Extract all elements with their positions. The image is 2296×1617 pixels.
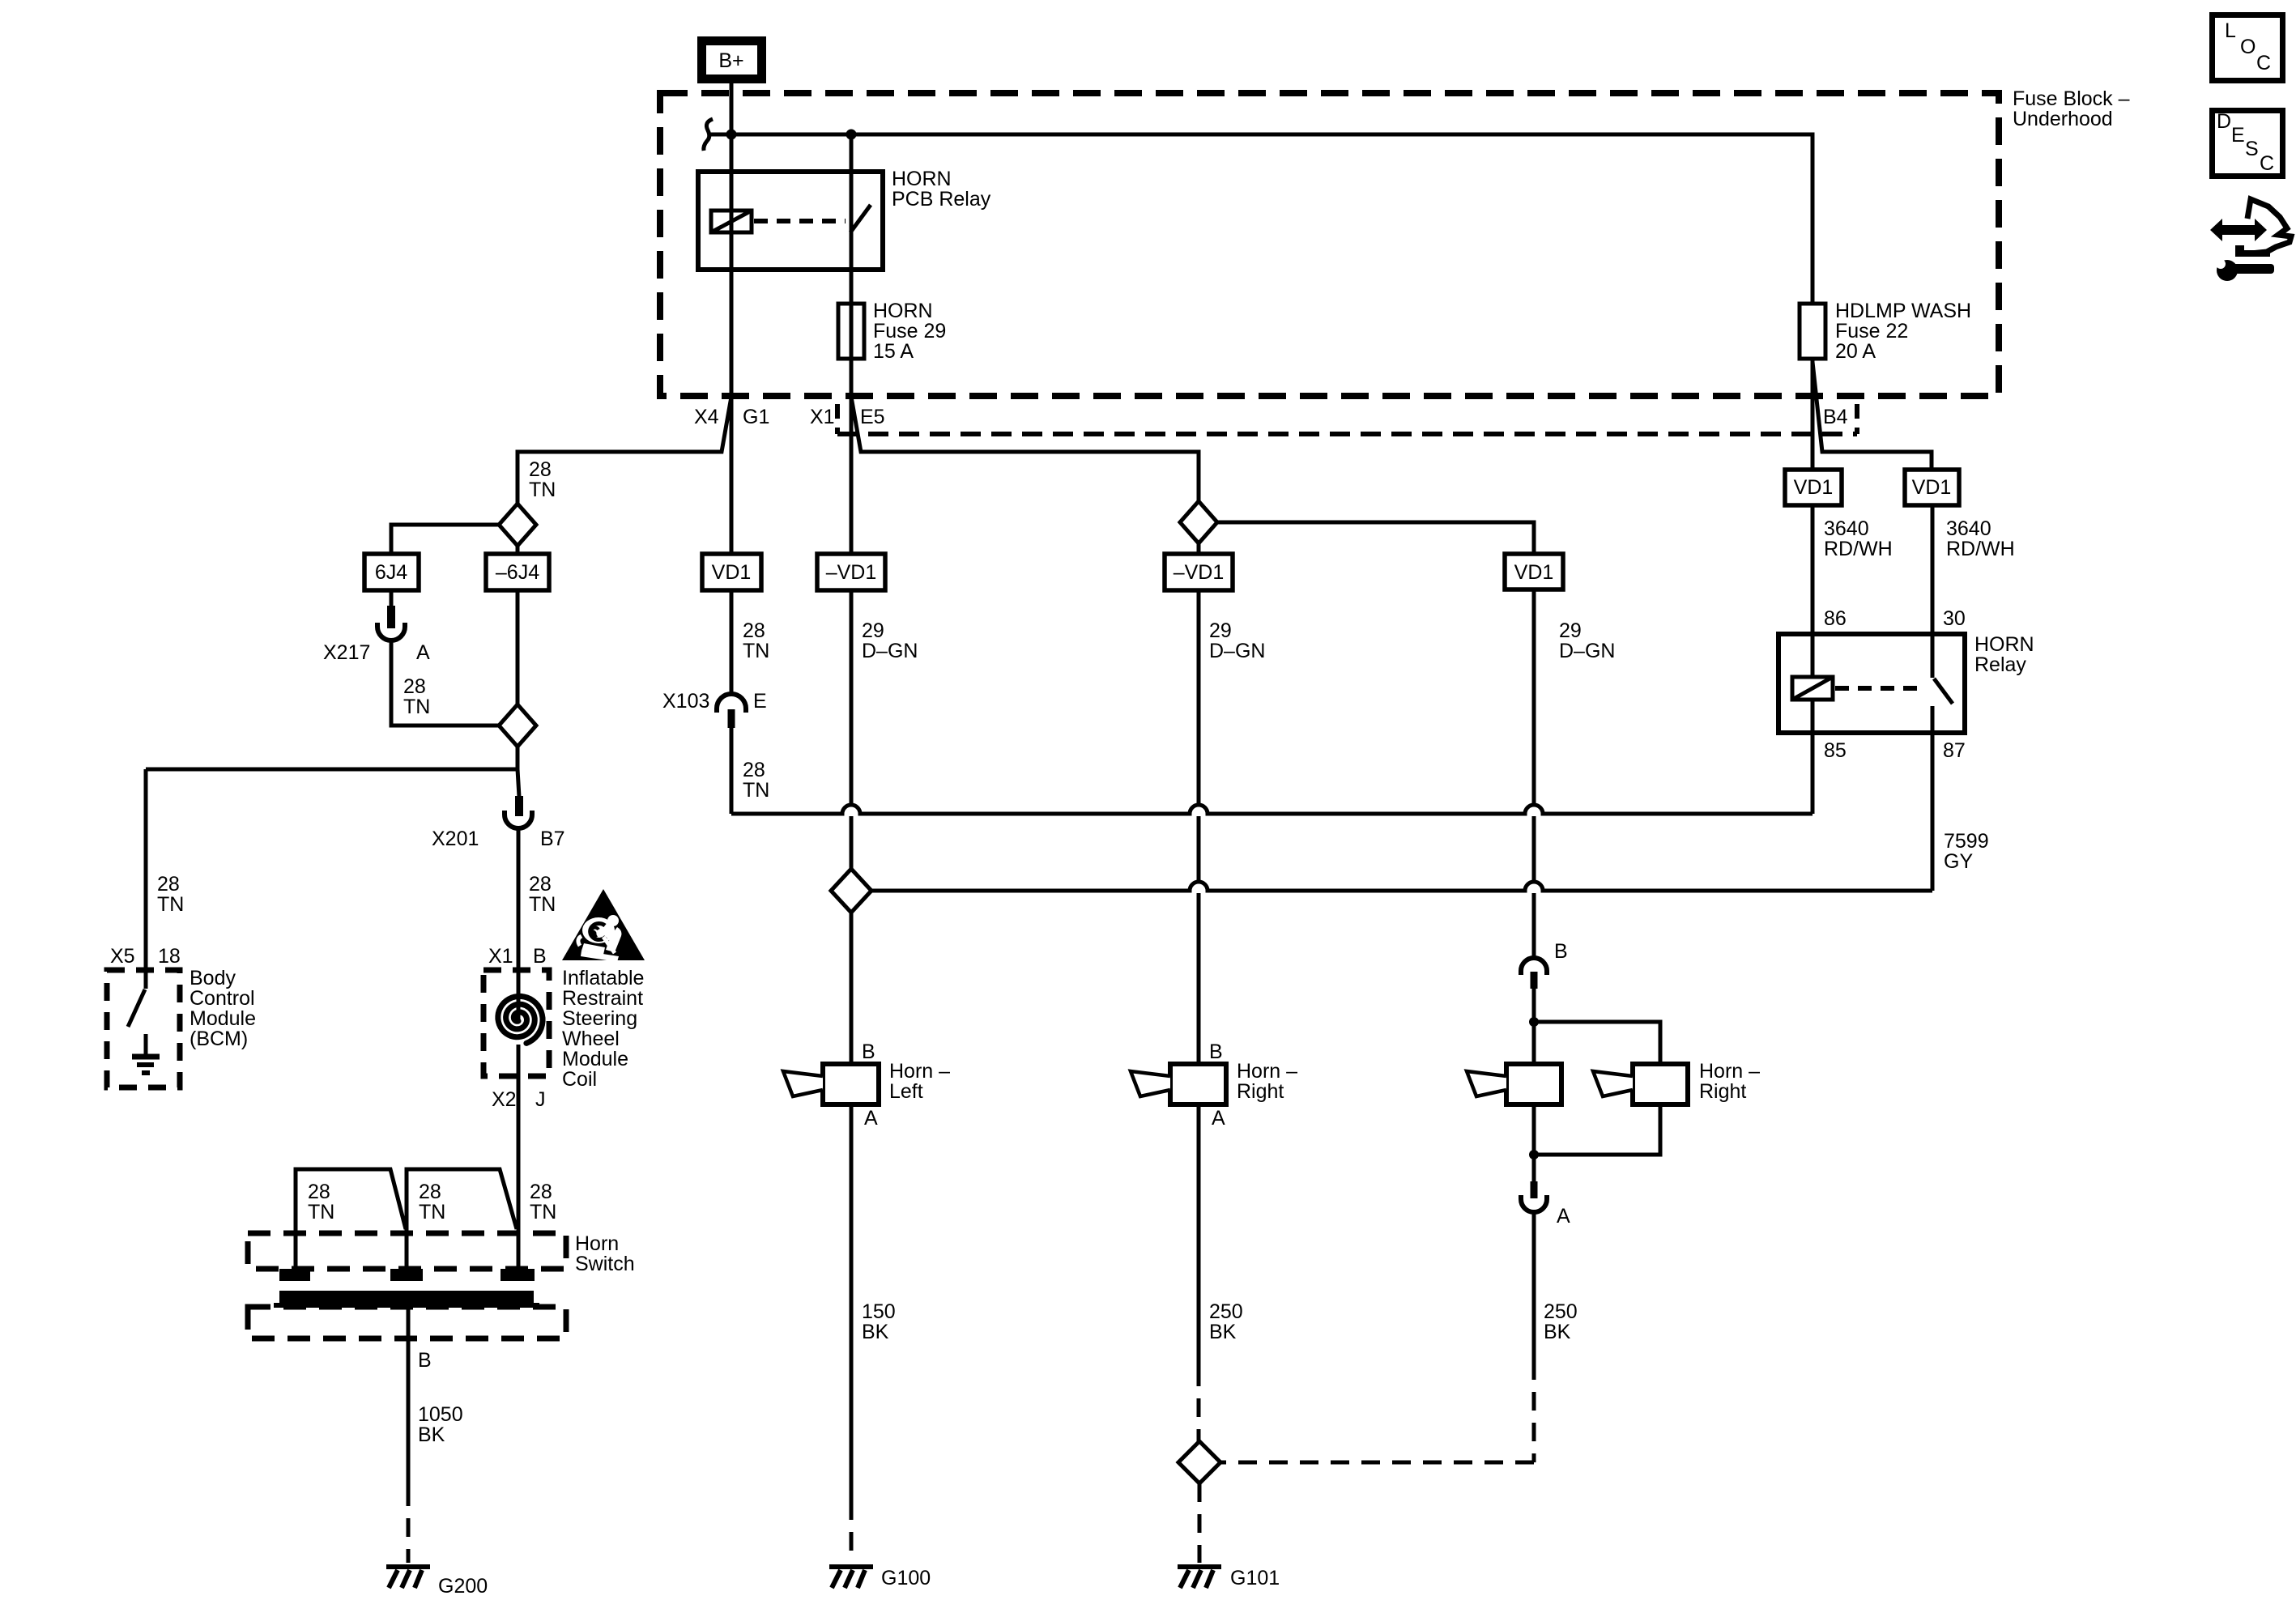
svg-text:RD/WH: RD/WH: [1946, 538, 2015, 560]
ground G101: [1178, 1567, 1280, 1589]
wire: horn pair feed vertical: [1532, 589, 1536, 958]
HORN Relay box: [1778, 634, 1965, 733]
svg-text:D–GN: D–GN: [1209, 640, 1265, 662]
wire: horn left feed vertical: [850, 590, 854, 1064]
splice diamond at E5 branch: [1180, 501, 1217, 543]
svg-text:C: C: [2260, 152, 2274, 175]
svg-text:TN: TN: [308, 1201, 334, 1223]
label 29 D-GN third: [1559, 619, 1615, 662]
svg-text:J: J: [535, 1088, 546, 1111]
HORN Relay coil: [1792, 677, 1833, 700]
HDLMP WASH Fuse 22 symbol: [1800, 304, 1825, 359]
svg-text:D–GN: D–GN: [1559, 640, 1615, 662]
wire: X217 to lower diamond: [391, 641, 499, 726]
svg-text:29: 29: [862, 619, 884, 642]
svg-text:B+: B+: [718, 49, 743, 72]
Inflatable Restraint Steering Wheel Module Coil dashed box: [483, 970, 549, 1076]
svg-text:E: E: [753, 690, 767, 713]
splice diamond ground branch: [1178, 1441, 1220, 1483]
svg-text:PCB Relay: PCB Relay: [892, 188, 991, 211]
svg-text:28: 28: [529, 458, 552, 481]
svg-text:G100: G100: [881, 1567, 931, 1589]
horn switch common bar: [279, 1291, 534, 1304]
HORN PCB Relay coil: [711, 211, 752, 232]
svg-text:28: 28: [743, 619, 765, 642]
svg-text:L: L: [2225, 19, 2236, 42]
svg-text:VD1: VD1: [1514, 561, 1554, 584]
svg-text:G1: G1: [743, 406, 769, 428]
wrench icon: [2216, 259, 2274, 281]
svg-text:Coil: Coil: [562, 1068, 597, 1091]
svg-text:A: A: [864, 1107, 878, 1130]
svg-text:1050: 1050: [418, 1403, 463, 1426]
horn switch contact pad 2: [390, 1269, 423, 1281]
wire: HORN fuse branch down: [850, 134, 854, 554]
wire: relay output bus: [871, 882, 1932, 893]
junction dot at horn fuse tap: [846, 130, 857, 140]
Horn pair first symbol: [1467, 1064, 1561, 1104]
wire: BCM drop: [144, 769, 148, 970]
connector X201 male pin: [515, 796, 523, 816]
wire: 6J4 to X217: [390, 590, 394, 607]
coil label: [562, 967, 644, 1091]
svg-text:Right: Right: [1699, 1080, 1746, 1103]
svg-text:C: C: [2256, 52, 2271, 74]
svg-text:X1: X1: [810, 406, 835, 428]
wire: diamond to 6J4: [391, 525, 499, 554]
svg-text:Restraint: Restraint: [562, 987, 643, 1010]
coil spiral symbol: [498, 996, 543, 1043]
Horn Right symbol: [1131, 1064, 1226, 1104]
-VD1 connector box E5: [817, 554, 885, 590]
horn switch contact pad 3: [501, 1269, 535, 1281]
horn switch contact ramp 2: [407, 1169, 517, 1269]
svg-text:28: 28: [308, 1181, 330, 1203]
svg-text:HORN: HORN: [892, 168, 952, 190]
wire: relay pin 85 to bus: [1811, 733, 1815, 814]
svg-text:VD1: VD1: [712, 561, 752, 584]
svg-text:HORN: HORN: [873, 300, 933, 322]
connector X103 male pin: [728, 709, 735, 728]
VD1 connector box horn pair: [1505, 554, 1563, 589]
Horn Left symbol: [783, 1064, 879, 1104]
HORN Fuse 29 label: [873, 300, 946, 363]
svg-text:–VD1: –VD1: [1174, 561, 1225, 584]
svg-text:Underhood: Underhood: [2013, 108, 2113, 130]
Horn pair second symbol: [1593, 1064, 1688, 1104]
svg-text:30: 30: [1943, 607, 1966, 630]
Horn Switch upper dashed box: [248, 1233, 566, 1269]
svg-text:Horn –: Horn –: [1699, 1060, 1760, 1083]
svg-text:250: 250: [1544, 1300, 1578, 1323]
wire: diamond down to X201 and BCM branch: [146, 747, 519, 797]
VD1 connector box B4 first: [1785, 470, 1842, 505]
svg-text:3640: 3640: [1946, 517, 1991, 540]
wire: ground splice to G101: [1198, 1483, 1202, 1563]
label 28 TN below X103: [743, 759, 769, 802]
wire: horn left ground lead: [850, 1104, 854, 1501]
wire: E5 jog to horn feed branch: [851, 397, 1199, 501]
splice diamond on 28 TN branch: [499, 504, 536, 546]
label 28 TN ramp1: [308, 1181, 334, 1223]
-VD1 connector box horn right: [1165, 554, 1233, 590]
label 29 D-GN second: [1209, 619, 1265, 662]
connector label X4 G1: [694, 406, 769, 428]
wire: B4 jog branch to second VD1: [1813, 362, 1932, 470]
label 3640 RD/WH second: [1946, 517, 2015, 560]
wire: horn pair ground lead: [1532, 1212, 1536, 1361]
connector X217 female socket: [377, 623, 405, 640]
Horn Switch label: [575, 1232, 635, 1275]
svg-text:Switch: Switch: [575, 1253, 635, 1275]
wire: G1 jog to horn switch feed branch: [518, 397, 731, 504]
svg-text:D–GN: D–GN: [862, 640, 918, 662]
svg-text:28: 28: [529, 873, 552, 896]
connector horn pair A female socket: [1521, 1195, 1547, 1212]
label 28 TN above X103: [743, 619, 769, 662]
wire: top bus from B+ junction to HDLMP WASH fuse: [709, 134, 1813, 304]
label 250 BK right: [1209, 1300, 1243, 1343]
Body Control Module dashed box: [107, 970, 180, 1087]
svg-text:87: 87: [1943, 739, 1966, 762]
svg-text:Fuse 29: Fuse 29: [873, 320, 946, 343]
Horn Right label: [1209, 1040, 1297, 1130]
svg-text:28: 28: [157, 873, 180, 896]
svg-text:VD1: VD1: [1912, 476, 1952, 499]
svg-text:Control: Control: [190, 987, 255, 1010]
svg-text:(BCM): (BCM): [190, 1028, 248, 1050]
junction dot horn pair top: [1529, 1017, 1539, 1027]
wire: horn right ground lead: [1197, 1104, 1201, 1368]
HORN Relay label: [1974, 633, 2034, 676]
svg-text:X5: X5: [110, 945, 135, 968]
HORN Fuse 29 symbol: [838, 304, 864, 359]
svg-text:HDLMP WASH: HDLMP WASH: [1835, 300, 1971, 322]
svg-text:B: B: [533, 945, 547, 968]
connector horn pair A male pin: [1531, 1181, 1538, 1198]
wire: VD1 G1 circuit down to X103: [730, 590, 734, 694]
connector horn pair B male pin: [1531, 972, 1538, 989]
label 150 BK: [862, 1300, 896, 1343]
label 29 D-GN first: [862, 619, 918, 662]
svg-text:RD/WH: RD/WH: [1824, 538, 1893, 560]
svg-text:B: B: [418, 1349, 432, 1372]
connector label X2 J at coil: [492, 1088, 546, 1111]
connector X201 female socket: [505, 811, 532, 828]
Horn pair label: [1699, 1060, 1760, 1103]
wire: B+ feed down into fuse block: [730, 83, 734, 554]
svg-text:3640: 3640: [1824, 517, 1869, 540]
wire: horn right feed vertical: [1197, 543, 1201, 1064]
svg-text:7599: 7599: [1944, 830, 1989, 853]
svg-text:TN: TN: [530, 1201, 556, 1223]
svg-text:28: 28: [743, 759, 765, 781]
label 3640 RD/WH first: [1824, 517, 1893, 560]
svg-text:VD1: VD1: [1794, 476, 1834, 499]
svg-text:Right: Right: [1237, 1080, 1284, 1103]
svg-text:86: 86: [1824, 607, 1847, 630]
svg-text:Module: Module: [562, 1048, 628, 1070]
Horn Left label: [862, 1040, 950, 1130]
svg-text:150: 150: [862, 1300, 896, 1323]
svg-text:15 A: 15 A: [873, 340, 914, 363]
Fuse Block - Underhood dashed enclosure: [660, 93, 1999, 396]
connector X217 male pin: [387, 606, 395, 628]
svg-text:20 A: 20 A: [1835, 340, 1876, 363]
-6J4 connector box: [486, 554, 549, 590]
svg-text:B4: B4: [1823, 406, 1848, 428]
wire: horn pair top leads: [1534, 989, 1660, 1064]
svg-text:TN: TN: [743, 640, 769, 662]
B+ battery positive terminal box: [702, 41, 762, 79]
Fuse Block - Underhood label: [2013, 87, 2130, 130]
label 28 TN at G1 branch: [529, 458, 556, 501]
svg-text:TN: TN: [743, 779, 769, 802]
svg-text:HORN: HORN: [1974, 633, 2034, 656]
wire: -6J4 down to lower diamond: [516, 590, 520, 704]
svg-text:Module: Module: [190, 1007, 256, 1030]
svg-text:BK: BK: [1209, 1321, 1237, 1343]
connector label X1 B at coil: [488, 945, 547, 968]
wire: relay pin 87 to output bus: [1931, 733, 1935, 891]
svg-text:X103: X103: [662, 690, 709, 713]
connector label X1 E5: [810, 406, 885, 428]
svg-text:S: S: [2245, 138, 2259, 160]
label 28 TN below X217: [403, 675, 430, 718]
svg-text:X201: X201: [432, 828, 479, 850]
svg-text:B7: B7: [540, 828, 565, 850]
DESC index box: [2213, 110, 2283, 177]
svg-text:28: 28: [419, 1181, 441, 1203]
connector horn pair B female socket: [1521, 958, 1547, 975]
HORN Relay switch: [1932, 634, 1953, 733]
svg-text:85: 85: [1824, 739, 1847, 762]
wire: X201 to steering wheel coil: [517, 829, 521, 1269]
svg-text:GY: GY: [1944, 850, 1973, 873]
wire: X103 down to relay coil bus: [730, 728, 734, 814]
svg-text:E5: E5: [860, 406, 885, 428]
connector X201 label: [432, 828, 565, 850]
svg-text:A: A: [1212, 1107, 1225, 1130]
svg-text:Wheel: Wheel: [562, 1028, 620, 1050]
svg-text:29: 29: [1559, 619, 1582, 642]
svg-text:Fuse Block –: Fuse Block –: [2013, 87, 2130, 110]
horn switch contact ramp 1: [296, 1169, 406, 1269]
HORN PCB Relay linkage dashes: [754, 219, 846, 223]
label 28 TN above coil: [529, 873, 556, 916]
curl: wire continuation pigtail: [704, 119, 713, 151]
svg-text:TN: TN: [419, 1201, 445, 1223]
wire: B4 fuse output: [1811, 359, 1815, 470]
connector plane X1 fine dashed line: [837, 404, 1857, 434]
label 250 BK pair: [1544, 1300, 1578, 1343]
svg-text:Fuse 22: Fuse 22: [1835, 320, 1908, 343]
svg-text:D: D: [2217, 110, 2231, 133]
svg-text:G200: G200: [438, 1575, 488, 1598]
connector label X5 18: [110, 945, 181, 968]
svg-text:29: 29: [1209, 619, 1232, 642]
svg-text:BK: BK: [862, 1321, 889, 1343]
connector X103 female socket: [717, 694, 746, 713]
svg-text:Horn: Horn: [575, 1232, 619, 1255]
HORN Relay linkage dashes: [1835, 686, 1925, 691]
label 1050 BK: [418, 1403, 463, 1446]
svg-text:E: E: [2231, 124, 2245, 147]
splice diamond to BCM branch: [499, 704, 536, 747]
wire: VD1 to relay pin 86: [1811, 505, 1815, 634]
svg-text:Left: Left: [889, 1080, 923, 1103]
wire: diamond to VD1 fourth: [1217, 522, 1534, 554]
svg-text:TN: TN: [529, 893, 556, 916]
label 28 TN ramp2: [419, 1181, 445, 1223]
wire: diamond to -6J4: [516, 546, 520, 554]
BCM label: [190, 967, 256, 1050]
wire: VD1 to relay pin 30: [1931, 505, 1935, 634]
svg-text:BK: BK: [1544, 1321, 1571, 1343]
svg-text:18: 18: [158, 945, 181, 968]
svg-text:X2: X2: [492, 1088, 517, 1111]
svg-text:Inflatable: Inflatable: [562, 967, 644, 989]
svg-text:G101: G101: [1230, 1567, 1280, 1589]
6J4 connector box: [364, 554, 419, 590]
svg-text:TN: TN: [157, 893, 184, 916]
wire: horn switch output B: [407, 1304, 411, 1487]
svg-text:250: 250: [1209, 1300, 1243, 1323]
LOC index box: [2213, 15, 2283, 81]
ground G200: [386, 1567, 488, 1598]
svg-text:TN: TN: [529, 479, 556, 501]
horn switch contact pad 1: [279, 1269, 310, 1281]
svg-text:Horn –: Horn –: [1237, 1060, 1297, 1083]
junction dot horn pair bottom: [1529, 1150, 1539, 1160]
HORN Relay internal coil wire: [1811, 634, 1815, 733]
svg-text:X217: X217: [323, 641, 370, 664]
VD1 connector box G1: [702, 554, 761, 590]
connector X217 label: [323, 641, 430, 664]
BCM internal ground: [132, 1034, 160, 1073]
junction dot at B+ bus: [726, 130, 737, 140]
wire: relay coil ground bus: [731, 805, 1813, 816]
HDLMP WASH Fuse 22 label: [1835, 300, 1971, 363]
svg-text:A: A: [1557, 1205, 1570, 1228]
svg-text:BK: BK: [418, 1423, 445, 1446]
svg-text:Relay: Relay: [1974, 653, 2026, 676]
wire: horn pair bottom leads: [1534, 1104, 1660, 1181]
label 7599 GY: [1944, 830, 1989, 873]
svg-text:B: B: [862, 1040, 875, 1063]
VD1 connector box B4 second: [1905, 470, 1959, 505]
HORN PCB Relay switch blade: [850, 205, 871, 232]
HORN PCB Relay box: [698, 172, 883, 270]
svg-text:TN: TN: [403, 696, 430, 718]
ground G100: [829, 1567, 931, 1589]
HORN PCB Relay label: [892, 168, 991, 211]
svg-text:O: O: [2240, 36, 2256, 58]
label 28 TN at BCM: [157, 873, 184, 916]
connector X103 label: [662, 690, 767, 713]
svg-text:Body: Body: [190, 967, 236, 989]
svg-text:28: 28: [530, 1181, 552, 1203]
airbag warning triangle: [562, 889, 645, 962]
splice diamond on horn left feed: [831, 869, 871, 913]
svg-text:6J4: 6J4: [375, 561, 407, 584]
svg-text:–6J4: –6J4: [496, 561, 539, 584]
BCM internal switch: [128, 970, 146, 1027]
replace part hand icon: [2210, 199, 2291, 257]
svg-text:–VD1: –VD1: [826, 561, 877, 584]
svg-text:X4: X4: [694, 406, 719, 428]
svg-text:Horn –: Horn –: [889, 1060, 950, 1083]
label 28 TN ramp3: [530, 1181, 556, 1223]
svg-text:B: B: [1209, 1040, 1223, 1063]
svg-text:A: A: [416, 641, 430, 664]
svg-text:28: 28: [403, 675, 426, 698]
svg-text:X1: X1: [488, 945, 513, 968]
svg-text:Steering: Steering: [562, 1007, 637, 1030]
svg-text:B: B: [1554, 940, 1568, 963]
Horn Switch lower dashed box: [248, 1307, 566, 1338]
